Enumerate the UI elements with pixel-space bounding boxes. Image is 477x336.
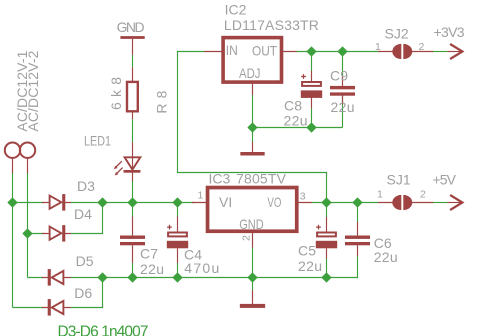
svg-text:LED1: LED1 — [84, 132, 111, 148]
svg-text:VI: VI — [219, 194, 232, 210]
svg-text:OUT: OUT — [252, 43, 277, 59]
svg-text:3: 3 — [300, 191, 306, 203]
svg-text:470u: 470u — [184, 260, 219, 276]
svg-text:D6: D6 — [74, 285, 92, 301]
svg-text:22u: 22u — [331, 99, 355, 115]
svg-text:ADJ: ADJ — [239, 65, 261, 81]
svg-text:2: 2 — [241, 235, 253, 241]
svg-text:C8: C8 — [284, 98, 302, 114]
svg-text:1: 1 — [377, 189, 383, 201]
svg-text:7805TV: 7805TV — [236, 171, 287, 187]
svg-text:VO: VO — [267, 194, 281, 210]
svg-text:AC/DC12V-2: AC/DC12V-2 — [25, 50, 41, 131]
svg-text:GND: GND — [239, 216, 264, 232]
svg-text:1: 1 — [198, 189, 204, 201]
svg-text:SJ2: SJ2 — [385, 25, 409, 41]
svg-text:D3: D3 — [77, 178, 95, 194]
svg-text:SJ1: SJ1 — [387, 172, 411, 188]
svg-text:22u: 22u — [140, 261, 164, 277]
svg-text:D3-D6 1n4007: D3-D6 1n4007 — [58, 324, 149, 336]
svg-text:D4: D4 — [74, 206, 92, 222]
svg-text:D5: D5 — [76, 253, 94, 269]
svg-text:IC3: IC3 — [209, 171, 231, 187]
svg-text:22u: 22u — [374, 249, 398, 265]
svg-text:2: 2 — [419, 41, 425, 53]
svg-text:2: 2 — [420, 189, 426, 201]
svg-text:C7: C7 — [140, 246, 158, 262]
svg-text:IN: IN — [226, 42, 238, 58]
svg-text:C5: C5 — [298, 243, 316, 259]
svg-text:1: 1 — [375, 41, 381, 53]
svg-text:C9: C9 — [330, 68, 348, 84]
svg-text:IC2: IC2 — [225, 2, 247, 18]
svg-text:22u: 22u — [284, 113, 308, 129]
svg-text:LD117AS33TR: LD117AS33TR — [224, 17, 319, 33]
svg-text:+3V3: +3V3 — [434, 24, 465, 40]
svg-text:GND: GND — [117, 19, 145, 35]
svg-text:22u: 22u — [298, 258, 322, 274]
svg-text:+5V: +5V — [433, 172, 457, 188]
svg-text:6k8: 6k8 — [108, 77, 124, 110]
